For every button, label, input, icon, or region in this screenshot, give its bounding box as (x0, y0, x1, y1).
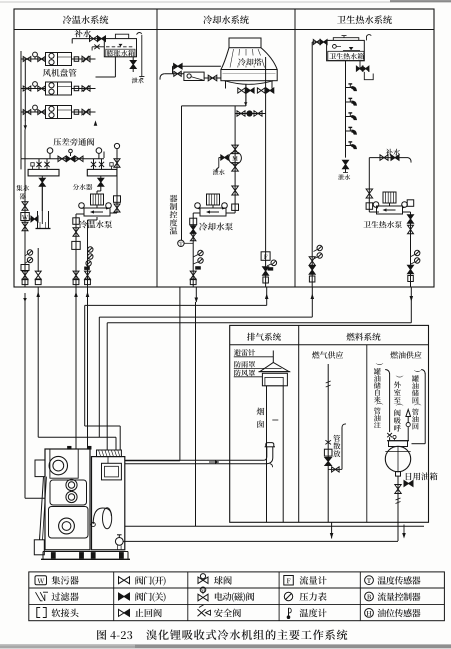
legend symbol flow controller (365, 592, 374, 601)
gauges lower left (27, 250, 32, 255)
wire header A (85, 304, 267, 306)
label 膨胀水箱 boxed (106, 49, 135, 57)
machine inner top box (50, 449, 78, 478)
distributor 分水器 (87, 169, 117, 176)
pump discharge pipe down (76, 213, 84, 215)
legend label 球阀 (214, 576, 223, 585)
arrow cooling supply (195, 287, 197, 302)
label 冷却塔 (238, 58, 246, 66)
left riser sanitary (311, 42, 313, 287)
wire header B (99, 316, 312, 318)
machine big top circle (49, 456, 67, 474)
basin outlet stub redo (245, 84, 247, 106)
machine purge pipe arc (93, 508, 111, 524)
machine small foot box (34, 540, 44, 555)
oil return pipe (421, 370, 425, 375)
machine base side ticks (42, 552, 44, 560)
legend symbol temp sensor (365, 576, 374, 585)
header separator line (14, 29, 434, 31)
label 烟囱 vertical (257, 408, 265, 416)
pump 卫生热水泵 (383, 192, 396, 203)
pump discharge down pipe (193, 212, 200, 214)
arrow cooling return up (266, 287, 268, 305)
column divider 1 (156, 9, 158, 287)
legend label 电动（磁）阀 (215, 592, 223, 600)
tank water level dashes (106, 46, 135, 48)
chimney cap box (262, 373, 287, 386)
oil fill pipe (385, 370, 389, 375)
dirt collector box W (21, 213, 30, 221)
fan coil unit row 3 (21, 111, 45, 113)
pump suction sanitary (368, 158, 370, 212)
machine body left block (45, 449, 90, 550)
title 燃料系统 (347, 333, 355, 341)
box header line (230, 344, 429, 346)
label 避雷针 with leader (234, 349, 241, 356)
expansion tank vent curl (136, 33, 138, 38)
bottom connection cooling return (263, 277, 269, 283)
title 冷温水系统 (63, 15, 72, 24)
treatment outlet to basin (204, 77, 221, 79)
distributor outlet valve (100, 176, 102, 191)
gas pipe break ticks (326, 381, 331, 383)
flue arrow (209, 461, 219, 463)
wire machine to under-box line (125, 525, 424, 527)
label 卫生热水箱 boxed (328, 51, 364, 60)
tower blowdown top line (173, 65, 221, 67)
wire chilled water return down to machine (37, 303, 39, 437)
drain standpipe container (37, 211, 39, 229)
overflow trap (364, 72, 373, 80)
basin outlet stub L (245, 84, 247, 106)
tank side drain with X valve (92, 46, 104, 48)
collector drain valve and standpipe (41, 176, 43, 211)
tower curtain lines (230, 49, 234, 68)
top systems frame (14, 9, 434, 287)
tank side valve (404, 481, 413, 487)
left supply riser (20, 51, 22, 159)
legend symbol pressure gauge (284, 592, 292, 600)
drain valve 泄水 on supply (219, 157, 229, 159)
collector inlet valves (38, 159, 40, 170)
tank overflow pipe right (141, 35, 143, 77)
tower drain lower line (164, 73, 184, 75)
tower water treatment box (184, 72, 204, 80)
machine two mid circles (66, 479, 77, 490)
machine big low circle (59, 518, 75, 534)
label 冷温水泵 (79, 220, 87, 228)
legend symbol flow meter F (284, 576, 294, 586)
second pipe to machine (87, 220, 89, 287)
hot water tank 卫生热水箱 (327, 40, 365, 60)
F meter on return (261, 252, 270, 260)
gas valves (325, 440, 331, 444)
left drain branch with strainer (24, 129, 26, 287)
label 补水 right (386, 149, 393, 156)
column divider 2 (294, 9, 296, 287)
tank top fittings (394, 438, 396, 440)
legend symbol oil level sensor (365, 609, 374, 618)
title 卫生热水系统 (337, 16, 346, 24)
legend label 集污器 (52, 576, 61, 585)
flue duct from machine (125, 447, 267, 461)
pump discharge right riser (407, 200, 414, 207)
page edge shading bottom (0, 644, 451, 649)
machine diagonal feed (40, 477, 44, 540)
machine low rounded box (49, 507, 89, 539)
makeup line right (369, 157, 408, 159)
cooling tower 冷却塔 (229, 38, 261, 48)
legend label 流量控制器 (378, 592, 386, 600)
machine lifting lugs (68, 446, 72, 449)
legend label 阀门（开） (135, 576, 143, 585)
legend label 阀门（关） (135, 592, 143, 601)
legend symbol filter (36, 592, 43, 601)
return riser from tower right (265, 57, 267, 287)
daily oil tank 日用油箱 (385, 446, 410, 471)
valve pair on return riser (257, 88, 265, 93)
label 燃气供应 (312, 351, 320, 358)
tank supply from left riser (312, 41, 326, 43)
legend symbol check valve (119, 609, 125, 616)
gas vent line (341, 428, 343, 470)
legend label 流量计 (300, 576, 309, 585)
fan coil unit row 2 (21, 88, 45, 90)
drain label 泄水 (132, 78, 138, 84)
discharge flex joint (73, 218, 80, 225)
flue outlet cap (265, 446, 275, 448)
tank lid line (333, 38, 359, 41)
title 冷却水系统 (203, 15, 212, 24)
vertical label 注油管（来自储油罐） (374, 421, 381, 428)
label 防风罩 with leader (234, 370, 240, 377)
legend label 压力表 (300, 593, 309, 601)
wire cooling supply down (195, 302, 197, 526)
label 日用油箱 (406, 473, 412, 480)
wire header C (107, 322, 411, 324)
wire cooling return riser lower (179, 287, 181, 461)
caption title (146, 630, 157, 640)
legend frame (29, 572, 445, 621)
label 燃油供应 (390, 351, 398, 358)
legend label 温度传感器 (378, 576, 387, 584)
bypass line with valves (21, 158, 104, 160)
vertical label 放散管 (333, 450, 340, 457)
valve pair on makeup line (90, 36, 98, 42)
faucets (346, 87, 353, 89)
second supply riser with arrow (24, 59, 26, 121)
gas pipe (327, 364, 329, 522)
breather valve symbol (407, 427, 409, 441)
distributor valves (93, 159, 95, 170)
fuel arrows below box (331, 522, 333, 538)
tank float circle (333, 45, 337, 49)
bypass line with motor valve (234, 106, 236, 114)
expansion tank drain valve (132, 57, 134, 72)
exit arrows below frame (24, 293, 26, 302)
pump 冷却水泵 (207, 194, 220, 205)
valves on left riser bottom (309, 257, 315, 265)
legend symbol dirt collector W (35, 576, 47, 585)
legend label 油位传感器 (378, 609, 386, 617)
wire chilled water supply down to machine (24, 302, 26, 498)
label 分水器 (73, 184, 79, 190)
vertical label 温度控制器 (170, 227, 178, 234)
main cooling supply pipe (234, 114, 236, 214)
fuel supply line to machine (123, 540, 398, 542)
machine feet (51, 553, 55, 559)
machine right inner boxes (102, 463, 122, 480)
makeup water pipe to expansion tank (72, 38, 104, 40)
legend label 过滤器 (52, 592, 61, 600)
exhaust and fuel frame (230, 325, 429, 522)
legend label 安全阀 (214, 609, 223, 618)
chimney rain cap roof (260, 363, 289, 372)
chimney tick (272, 419, 278, 421)
legend label 温度计 (300, 609, 309, 617)
bypass control valve with actuator (67, 156, 75, 162)
machine left panel (35, 460, 45, 477)
pump gauges cooling (195, 203, 201, 209)
gauges on left riser bottom (317, 245, 322, 250)
legend symbol safety valve (198, 609, 206, 616)
legend label 软接头 (52, 609, 61, 618)
temperature sensor circle T (178, 240, 184, 246)
label 补水 (makeup water) (75, 29, 83, 37)
oil outlet valve (395, 485, 401, 494)
faucet drop pipe (345, 61, 347, 158)
junction arrow (244, 102, 247, 105)
legend symbol valve closed (119, 593, 130, 600)
tank manhole (389, 441, 408, 447)
label 集水器 (two lines) (16, 185, 22, 191)
title 排气系统 (247, 333, 255, 341)
bottom connections left column (22, 271, 28, 280)
tank water level mark (349, 47, 354, 50)
valve on right pipe bottom (408, 265, 414, 274)
cooling header line (182, 105, 246, 107)
gauges on discharge (198, 250, 203, 255)
chimney body 烟囱 (266, 386, 268, 523)
small gauges on pipe (88, 247, 93, 252)
label 卫生热水泵 (363, 221, 370, 227)
legend symbol thermometer (288, 608, 290, 618)
sanitary discharge riser redo (403, 211, 411, 213)
tank bottom outlet (396, 472, 401, 477)
machine mid rounded box (50, 480, 87, 505)
small fittings left of pump (190, 218, 197, 225)
tower basin (221, 70, 277, 81)
legend symbol flex joint (37, 608, 40, 618)
machine purge pump oval (103, 508, 112, 529)
oil pipe ticks (396, 498, 401, 500)
box divider (298, 325, 300, 522)
expansion pipe down to system (114, 57, 116, 77)
legend symbol valve open (119, 577, 130, 584)
tank overflow assembly (359, 61, 361, 69)
return riser (94, 120, 98, 125)
machine drain fitting circle (115, 538, 123, 546)
oil fill valve X (387, 433, 392, 437)
tower drain curl (160, 74, 164, 80)
fan coil unit row 1 风机盘管 (21, 58, 45, 60)
discharge filter box (72, 241, 80, 249)
bottom connection cooling supply (190, 271, 196, 280)
side drain valve (22, 222, 28, 231)
pump gauges (79, 203, 85, 209)
machine right block (92, 457, 125, 550)
gauges on right pipe bottom (415, 250, 420, 255)
pressure reducing valve with motor (232, 145, 239, 154)
expansion tank 膨胀水箱 (104, 39, 136, 57)
tank vent curl (367, 35, 372, 41)
legend symbol ball valve (198, 577, 208, 584)
machine base (43, 551, 128, 553)
caption 图4-23 (97, 630, 106, 640)
label 压差旁通阀 (53, 138, 61, 146)
fuel inner divider (366, 345, 368, 523)
wire fan coil pipes to machine top (75, 303, 77, 449)
discharge valve (73, 228, 79, 236)
label 防雨罩 with leader (234, 361, 240, 368)
valve above pump (232, 186, 239, 195)
legend label 止回阀 (135, 609, 144, 617)
pump gauge right (402, 202, 408, 208)
page edge shading top (0, 1, 451, 3)
oil return pipe label redo (413, 423, 419, 429)
tank lid bump (115, 34, 128, 38)
lightning rod (272, 351, 274, 363)
legend column lines (113, 572, 115, 621)
machine top manifold (97, 450, 122, 457)
legend symbol solenoid valve (198, 594, 208, 601)
vertical label 呼吸阀（至室外） (394, 425, 401, 432)
collector 集水器 (28, 169, 59, 176)
pump 冷温水泵 (91, 194, 104, 205)
legend row lines (29, 587, 445, 589)
label 冷却水泵 (199, 222, 207, 230)
left riser cooling column (181, 106, 183, 240)
return valve bottom (263, 267, 269, 275)
pump suction riser right (116, 150, 118, 213)
drop pipe drain valve 泄水 (343, 160, 349, 169)
label 风机盘管 (43, 69, 51, 77)
fuel oil arrow redo (403, 525, 405, 534)
